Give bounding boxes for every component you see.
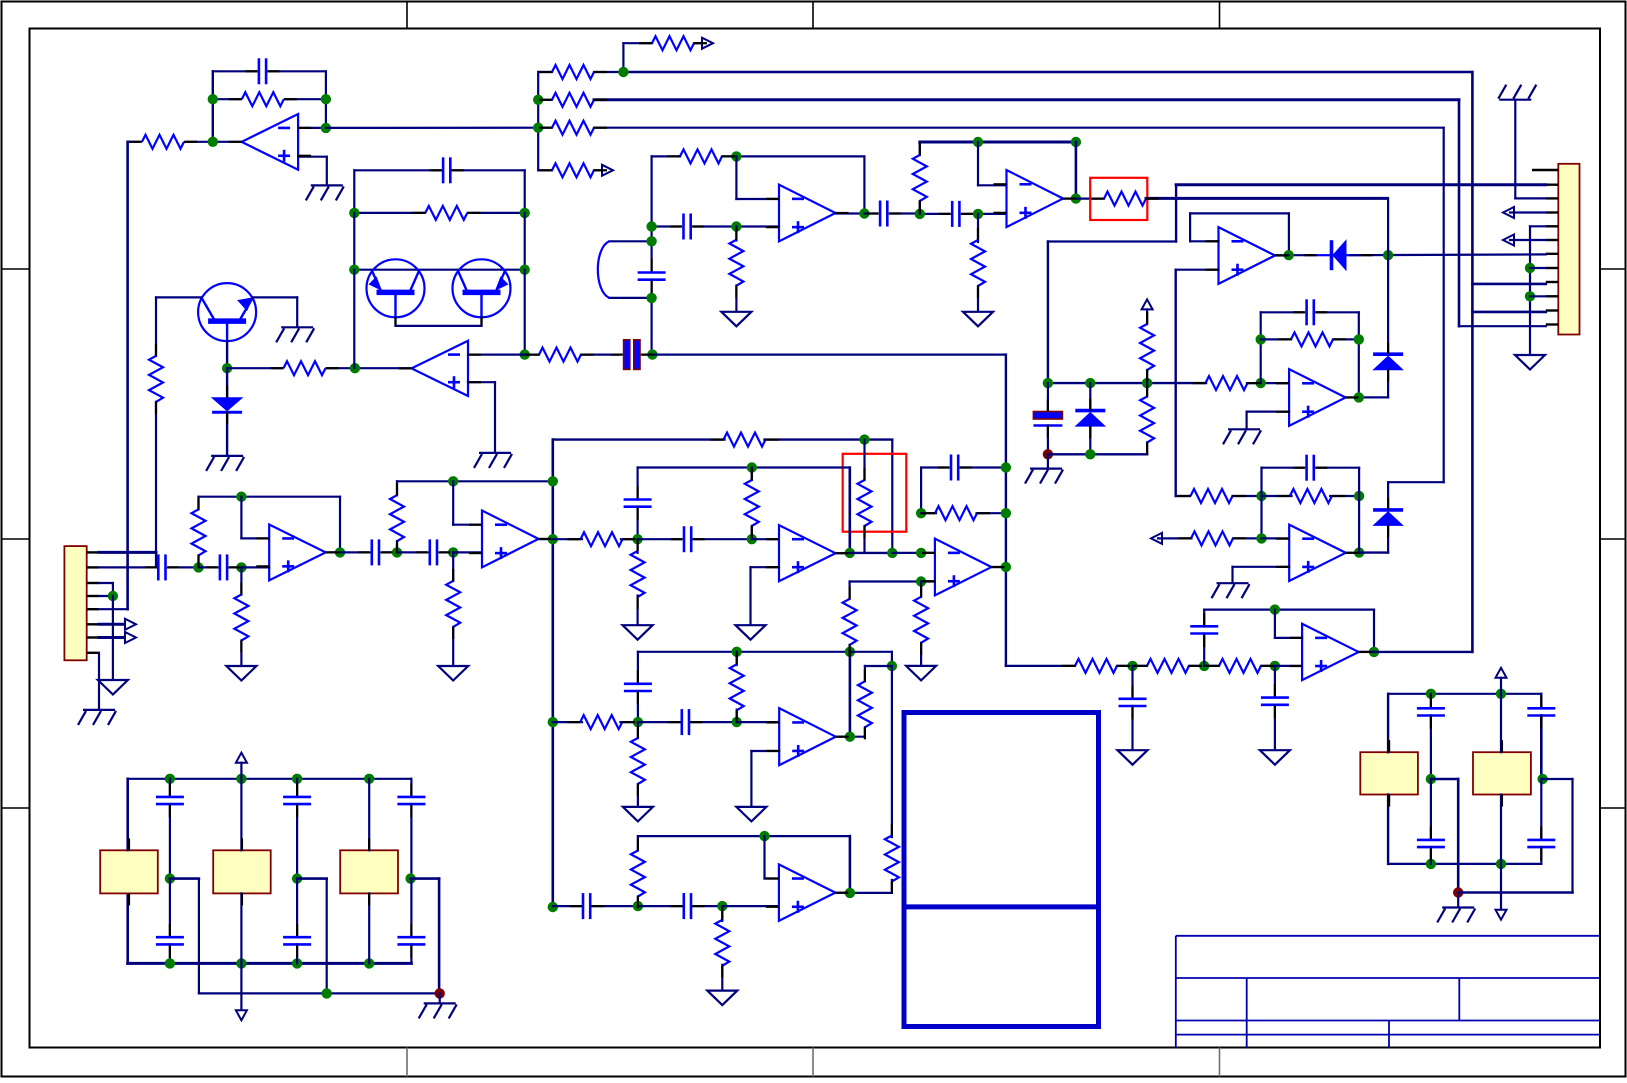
wire W331 (1457, 779, 1460, 893)
wire W198 (197, 555, 199, 567)
wire W145 (1203, 610, 1205, 627)
ground (open triangle) GND13 (736, 807, 766, 822)
border zone tick (bottom) (812, 1048, 814, 1077)
wire W6 (285, 98, 326, 100)
wire W74 (977, 214, 979, 242)
junction J86 (165, 873, 175, 883)
wire W248 (992, 566, 1006, 568)
port arrow P2 (602, 165, 613, 176)
wire W146 (1204, 608, 1374, 610)
junction J24 (1085, 378, 1095, 388)
wire W313 (368, 779, 370, 851)
wire W207 (383, 551, 397, 553)
ground (earth) E3 (1223, 429, 1261, 444)
wire W227 (636, 468, 638, 500)
junction J72 (732, 647, 742, 657)
border zone tick (left) (2, 268, 30, 270)
capacitor C28 (397, 937, 425, 944)
border zone tick (top) (406, 2, 408, 29)
pin 4 of CN1 (1546, 211, 1559, 213)
junction J15 (646, 236, 656, 246)
wire W131 (1359, 551, 1388, 553)
capacitor C1 (259, 58, 266, 84)
capacitor C32 (1527, 840, 1555, 847)
junction J5 (618, 67, 628, 77)
junction J52 (335, 547, 345, 557)
junction J94 (1426, 689, 1436, 699)
diode D5 (1373, 510, 1403, 526)
junction J80 (717, 901, 727, 911)
wire W4 (325, 71, 327, 128)
wire W267 (553, 721, 582, 723)
wire W257 (891, 652, 893, 666)
wire W255 (849, 652, 852, 737)
wire W110 (1048, 453, 1147, 455)
wire W327 (1388, 863, 1541, 865)
wire W124 (1158, 537, 1192, 539)
wire W273 (736, 710, 738, 723)
wire W61 (609, 297, 651, 299)
resistor R8 (680, 149, 722, 163)
junction J6 (533, 95, 543, 105)
junction J71 (916, 576, 926, 586)
wire W179 (525, 354, 539, 356)
junction J28 (1354, 334, 1364, 344)
wire W168 (353, 213, 355, 270)
wire W157 (327, 367, 413, 369)
wire W174 (353, 270, 355, 369)
ground (open triangle) GND5 (1260, 750, 1290, 765)
border zone tick (left) (2, 538, 30, 540)
ground (earth) E11 (1437, 908, 1475, 923)
junction J59 (548, 902, 558, 912)
wire W316 (410, 804, 412, 879)
junction J74 (887, 661, 897, 671)
wire W161 (155, 402, 157, 568)
junction J4 (321, 123, 331, 133)
wire W12 (126, 142, 129, 609)
op-amp U14 (779, 864, 836, 921)
ground (open triangle) GND4 (1118, 750, 1148, 765)
capacitor C30 (1417, 840, 1445, 847)
wire W35 (1387, 525, 1389, 553)
pin 4 of CN2 (87, 595, 99, 597)
resistor R34 (745, 480, 759, 526)
component box Y3 (340, 850, 398, 893)
resistor R36 (935, 506, 977, 520)
border zone tick (bottom) (406, 1048, 408, 1077)
wire W203 (240, 641, 242, 667)
junction J67 (1001, 462, 1011, 472)
wire W297 (169, 779, 171, 797)
wire W197 (197, 497, 199, 510)
wire W205 (339, 497, 341, 553)
resistor R3 (652, 36, 694, 50)
wire W34 (1387, 482, 1389, 510)
resistor R42 (730, 664, 744, 710)
wire W81 (1387, 255, 1389, 354)
wire W183 (99, 551, 156, 554)
junction J75 (633, 717, 643, 727)
junction J79 (633, 901, 643, 911)
capacitor C8 (1119, 699, 1147, 706)
wire W258 (865, 665, 892, 667)
ground (earth) E2 (1498, 85, 1536, 100)
wire W303 (128, 962, 412, 965)
junction J33 (1256, 533, 1266, 543)
junction J68 (916, 508, 926, 518)
wire W275 (637, 784, 639, 807)
op-amp U9 (269, 525, 326, 581)
junction J22 (1284, 250, 1294, 260)
wire W112 (1146, 370, 1148, 383)
wire W122 (1358, 468, 1360, 496)
wire W315 (410, 779, 412, 797)
capacitor C15 (430, 539, 437, 565)
junction J90 (364, 958, 374, 968)
wire W150 (1359, 651, 1374, 653)
transistor Q3 (453, 259, 511, 317)
wire W138 (1261, 665, 1275, 667)
junction J85 (364, 774, 374, 784)
wire W84 (1048, 240, 1176, 242)
wire W3 (212, 71, 214, 142)
wire W42 (1529, 226, 1531, 355)
wire W184 (99, 566, 154, 568)
wire W173 (396, 325, 482, 327)
wire W60 (609, 240, 651, 242)
ground (open triangle) GND14 (707, 991, 737, 1006)
junction J20 (1071, 137, 1081, 147)
junction J60 (859, 434, 869, 444)
resistor R17 (1191, 489, 1233, 503)
wire W296 (127, 779, 129, 851)
junction J14 (646, 221, 656, 231)
wire W118 (1330, 495, 1359, 497)
wire W102 (1317, 311, 1359, 313)
pin 2 of CN2 (87, 566, 99, 568)
pin 12 of CN1 (1546, 323, 1559, 325)
wire W114 (1146, 443, 1148, 455)
wire W27 (1471, 72, 1474, 652)
wire W251 (848, 645, 850, 652)
wire W142 (1274, 666, 1276, 698)
wire W228 (636, 507, 638, 540)
resistor R44 (631, 851, 645, 897)
wire W13 (623, 42, 652, 44)
resistor R21 (1147, 659, 1189, 673)
wire W137 (1204, 665, 1219, 667)
wire W274 (637, 722, 639, 738)
port arrow P10 (236, 1010, 247, 1020)
resistor R11 (971, 240, 985, 286)
border zone tick (left) (2, 807, 30, 809)
wire W223 (863, 440, 865, 480)
pin 7 of CN2 (87, 636, 99, 638)
wire W121 (1260, 468, 1262, 496)
junction J1 (208, 94, 218, 104)
wire W339 (1543, 778, 1573, 780)
wire W314 (368, 893, 370, 963)
ground (open triangle) GND9 (623, 625, 653, 640)
junction J69 (1001, 508, 1011, 518)
wire W308 (296, 804, 298, 879)
resistor R15 (1140, 324, 1154, 370)
wire W88 (1189, 213, 1191, 241)
ground (open triangle) GND11 (906, 666, 936, 681)
wire W280 (849, 836, 852, 893)
wire W310 (326, 879, 328, 994)
wire W148 (1275, 637, 1302, 639)
junction J98 (1426, 774, 1436, 784)
wire W289 (722, 905, 779, 907)
wire W116 (1233, 495, 1262, 497)
capacitor C2 (684, 214, 691, 240)
title block (1176, 936, 1600, 1048)
wire W9 (298, 127, 326, 129)
wire W82 (1387, 369, 1389, 397)
wire W2 (269, 70, 326, 72)
wire W151 (1374, 651, 1472, 653)
pin 8 of CN1 (1546, 267, 1559, 269)
wire W18 (623, 71, 1472, 73)
wire W117 (1262, 495, 1292, 497)
wire W261 (850, 736, 865, 738)
diode D1 (1075, 411, 1105, 427)
wire W292 (836, 892, 850, 894)
capacitor C25 (283, 797, 311, 804)
highlight box HL1 (1090, 178, 1147, 220)
wire W109 (1047, 454, 1049, 467)
wire W132 (1005, 355, 1007, 666)
wire W164 (353, 170, 355, 213)
wire W323 (1388, 693, 1541, 695)
wire W199 (199, 566, 217, 568)
ground (open triangle) GND2 (721, 312, 751, 327)
wire W282 (765, 877, 779, 879)
resistor R37 (843, 599, 857, 645)
wire W182 (652, 354, 1006, 356)
wire W320 (410, 944, 412, 963)
wire W306 (240, 963, 242, 1010)
pin 6 of CN1 (1546, 239, 1559, 241)
wire W268 (621, 721, 638, 723)
junction J39 (1369, 647, 1379, 657)
wire W10 (298, 156, 327, 158)
resistor R26 (539, 348, 581, 362)
wire W230 (621, 538, 638, 540)
wire W265 (637, 652, 639, 684)
wire W96 (1247, 411, 1290, 413)
wire W195 (240, 497, 242, 539)
junction J13 (859, 208, 869, 218)
junction J12 (731, 221, 741, 231)
resistor R45 (715, 920, 729, 966)
wire W93 (1174, 270, 1176, 496)
wire W178 (494, 382, 496, 452)
wire W144 (1203, 634, 1205, 666)
wire W264 (850, 892, 892, 894)
wire W62 (650, 241, 652, 271)
junction J35 (1127, 661, 1137, 671)
wire W326 (1387, 795, 1389, 864)
pin 7 of CN1 (1546, 253, 1559, 255)
wire W171 (394, 317, 396, 326)
wire W158 (226, 368, 228, 398)
junction J84 (292, 774, 302, 784)
junction J3 (208, 137, 218, 147)
junction J37 (1270, 661, 1280, 671)
port arrow P7 (125, 619, 136, 630)
wire W270 (691, 721, 737, 723)
resistor R10 (913, 155, 927, 201)
wire W166 (354, 212, 424, 214)
op-amp U10 (482, 511, 539, 568)
junction J44 (349, 265, 359, 275)
op-amp U5 (1289, 369, 1346, 426)
wire W324 (1500, 678, 1502, 694)
wire W49 (735, 156, 737, 199)
ground (open triangle) GND1 (1515, 355, 1545, 370)
wire W222 (891, 440, 893, 553)
pin 5 of CN2 (87, 608, 99, 610)
capacitor C7 (1307, 455, 1314, 481)
resistor R6 (552, 121, 594, 135)
wire W224 (863, 526, 865, 553)
port arrow P11 (1496, 668, 1507, 678)
wire W330 (1431, 778, 1458, 781)
wire W321 (199, 992, 440, 994)
ground (open triangle) GND3 (963, 312, 993, 327)
wire W125 (1233, 537, 1262, 539)
port arrow P6 (1151, 533, 1162, 544)
wire W63 (650, 280, 652, 298)
wire W71 (920, 141, 1076, 144)
wire W277 (750, 751, 752, 807)
capacitor C19 (624, 684, 652, 691)
wire W286 (592, 905, 638, 907)
wire W108 (1047, 426, 1049, 455)
wire W278 (836, 736, 850, 738)
wire W87 (1190, 240, 1218, 242)
junction J23 (1043, 378, 1053, 388)
wire W11 (326, 157, 328, 185)
junction J31 (1256, 491, 1266, 501)
wire W293 (128, 778, 412, 780)
wire W242 (892, 552, 935, 554)
wire W20 (538, 99, 552, 101)
junction J91 (292, 873, 302, 883)
wire W119 (1262, 467, 1304, 469)
wire W180 (581, 354, 618, 356)
component box CN2 (64, 546, 86, 660)
wire W15 (622, 43, 624, 72)
wire W334 (1500, 694, 1502, 752)
junction J58 (548, 717, 558, 727)
wire W159 (226, 412, 228, 455)
wire W262 (891, 666, 893, 837)
ground (earth) E1 (306, 185, 344, 200)
wire W105 (1089, 383, 1091, 411)
wire W104 (1346, 396, 1359, 398)
ground (earth) E8 (474, 453, 512, 468)
wire W72 (977, 142, 979, 185)
wire W311 (296, 879, 298, 938)
wire W90 (1288, 213, 1290, 255)
resistor R25 (425, 206, 467, 220)
resistor R13 (1206, 376, 1248, 390)
wire W89 (1190, 212, 1289, 214)
wire W21 (594, 98, 1459, 101)
wire W54 (735, 227, 737, 241)
wire W28 (1458, 100, 1461, 326)
wire W317 (411, 877, 440, 880)
highlight box HL2 (843, 454, 907, 532)
wire W190 (99, 608, 128, 610)
junction J40 (222, 363, 232, 373)
wire W139 (1275, 665, 1302, 667)
junction J7 (533, 123, 543, 133)
wire W111 (1146, 309, 1148, 324)
capacitor C29 (1417, 708, 1445, 715)
resistor R32 (858, 480, 872, 526)
component box Y5 (1473, 752, 1531, 794)
wire W298 (169, 804, 171, 879)
resistor R14 (1291, 332, 1333, 346)
junction J43 (520, 208, 530, 218)
wire W189 (112, 596, 114, 680)
wire W300 (198, 879, 200, 994)
wire W188 (99, 595, 113, 597)
wire W249 (850, 580, 935, 582)
wire W68 (963, 213, 1007, 215)
junction J61 (747, 462, 757, 472)
op-amp U2 (779, 185, 836, 242)
wire W238 (751, 566, 780, 568)
capacitor C16 (624, 500, 652, 507)
wire W200 (231, 566, 241, 568)
component pins (129, 43, 1541, 978)
junction J97 (1496, 859, 1506, 869)
wire W235 (751, 526, 753, 539)
junction J8 (1525, 263, 1535, 273)
resistor R43 (631, 738, 645, 784)
junction J93 (322, 988, 332, 998)
junction J82 (165, 774, 175, 784)
junction J38 (1270, 604, 1280, 614)
ground (open triangle) GND12 (623, 807, 653, 822)
wire W253 (920, 643, 922, 666)
wire W156 (227, 367, 282, 369)
wire W202 (240, 567, 242, 594)
junction J41 (350, 363, 360, 373)
node (power junction) PJ1 (1043, 449, 1053, 459)
diode D3 (1373, 354, 1403, 370)
wire W344 (1457, 893, 1459, 907)
port arrow P8 (125, 632, 136, 643)
wire W291 (721, 965, 723, 991)
wire W92 (1176, 269, 1219, 271)
ground (open triangle) GND7 (226, 666, 256, 681)
capacitor C3 (880, 201, 887, 227)
wire W5 (213, 98, 241, 100)
wire W193 (98, 653, 100, 709)
wire W59 (891, 212, 920, 214)
wire W141 (1131, 706, 1133, 750)
junction J83 (236, 774, 246, 784)
component box CN1 (1558, 164, 1579, 335)
wire W340 (1571, 779, 1573, 893)
